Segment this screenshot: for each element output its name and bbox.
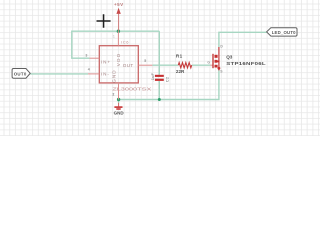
svg-text:LED_OUT0: LED_OUT0 bbox=[272, 30, 296, 35]
junction +5V node bbox=[117, 30, 120, 33]
svg-text:STP16NF06L: STP16NF06L bbox=[226, 62, 266, 67]
wire +5V down to capacitor top bbox=[158, 31, 160, 75]
svg-text:+5V: +5V bbox=[114, 2, 124, 7]
wire +5V horizontal rail with left branch to IN+ bbox=[72, 31, 160, 58]
wire MOSFET drain riser to LED_OUT0 bbox=[219, 32, 267, 47]
pin GND stub bbox=[118, 83, 120, 100]
svg-text:1: 1 bbox=[113, 35, 115, 39]
svg-text:Q3: Q3 bbox=[226, 55, 233, 60]
junction GND pin node bbox=[117, 98, 120, 101]
net label OUT0 bbox=[12, 69, 30, 79]
svg-text:5: 5 bbox=[144, 59, 146, 63]
transistor Q3 drain/source vertical bbox=[218, 47, 220, 70]
transistor Q3 bulk arrow bbox=[217, 60, 220, 63]
svg-text:22R: 22R bbox=[176, 69, 185, 74]
pin OUT stub bbox=[138, 64, 152, 66]
IC IC6 (gate driver) box bbox=[99, 46, 138, 83]
wire capacitor bottom to GND rail bbox=[158, 81, 160, 100]
svg-text:C2: C2 bbox=[164, 76, 169, 82]
svg-text:VDD: VDD bbox=[116, 52, 121, 66]
wire GND junction stub down bbox=[118, 100, 120, 103]
svg-text:IC6: IC6 bbox=[121, 40, 129, 45]
resistor R1 zigzag bbox=[178, 63, 191, 68]
transistor Q3 source junction dot bbox=[218, 67, 221, 70]
svg-text:R1: R1 bbox=[176, 54, 183, 59]
wire OUT0 tag to IN- pin bbox=[30, 73, 88, 75]
svg-text:IN+: IN+ bbox=[101, 59, 111, 64]
transistor Q3 gate bar bbox=[212, 54, 214, 68]
net label LED_OUT0 bbox=[267, 28, 297, 36]
wire GND rail and MOSFET source riser bbox=[119, 70, 219, 99]
svg-text:GND: GND bbox=[111, 69, 116, 83]
capacitor C2 plates bbox=[155, 75, 164, 77]
power symbol +5V bbox=[114, 2, 124, 31]
svg-text:OUT: OUT bbox=[123, 63, 134, 68]
svg-text:4: 4 bbox=[88, 68, 90, 72]
svg-text:.1uF: .1uF bbox=[150, 72, 155, 81]
wire IC OUT to resistor R1 bbox=[152, 64, 178, 66]
svg-text:IN-: IN- bbox=[101, 71, 110, 76]
pin IN- stub bbox=[88, 73, 99, 75]
wire resistor R1 to MOSFET gate bbox=[192, 64, 211, 66]
svg-text:G: G bbox=[207, 61, 210, 65]
transistor Q3 gate stub bbox=[210, 64, 213, 66]
ground symbol GND bbox=[114, 103, 125, 116]
cursor crosshair bbox=[97, 14, 111, 27]
transistor Q3 channel bars bbox=[215, 55, 218, 58]
svg-text:OUT0: OUT0 bbox=[14, 71, 27, 76]
svg-text:3: 3 bbox=[85, 54, 87, 58]
svg-text:GND: GND bbox=[114, 111, 125, 116]
junction capacitor-GND node bbox=[158, 98, 161, 101]
svg-text:2: 2 bbox=[112, 92, 114, 96]
pin IN+ stub bbox=[90, 57, 100, 59]
pin VDD stub bbox=[117, 31, 119, 46]
